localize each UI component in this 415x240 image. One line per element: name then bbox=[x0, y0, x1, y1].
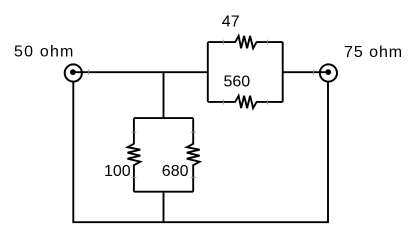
port P1 center dot bbox=[70, 69, 76, 75]
tick R4 pin2 bbox=[191, 176, 196, 178]
svg-text:50 ohm: 50 ohm bbox=[14, 44, 75, 61]
wire main right (upper box to port P2) bbox=[283, 71, 329, 73]
wire main left (port P1 to upper box) bbox=[73, 71, 208, 73]
svg-text:680: 680 bbox=[162, 163, 189, 180]
svg-text:47: 47 bbox=[222, 14, 240, 31]
port P2 center dot bbox=[325, 69, 331, 75]
wire lower box top edge bbox=[134, 117, 193, 119]
tick R1 pin2 bbox=[266, 40, 268, 45]
wire upper box right edge bbox=[282, 42, 284, 102]
wire upper box left edge bbox=[207, 42, 209, 102]
tick R2 pin2 bbox=[266, 100, 268, 105]
svg-text:75 ohm: 75 ohm bbox=[344, 44, 403, 61]
tick R3 pin1 bbox=[131, 131, 136, 133]
port P1 circle bbox=[65, 64, 82, 81]
pin end tick marks bbox=[88, 40, 313, 178]
svg-text:100: 100 bbox=[104, 163, 131, 180]
tick R1 pin1 bbox=[222, 40, 224, 45]
svg-text:560: 560 bbox=[224, 74, 251, 91]
tick R3 pin2 bbox=[131, 176, 136, 178]
resistor R1 47 (top edge of upper box) bbox=[208, 36, 283, 48]
resistor R3 100 (left edge of lower box) bbox=[128, 118, 141, 192]
wire junction tap down to lower box bbox=[163, 72, 165, 118]
tick R4 pin1 bbox=[191, 131, 196, 133]
tick R2 pin1 bbox=[222, 100, 224, 105]
wire lower box bottom tap bbox=[163, 192, 165, 223]
tick P2 pin bbox=[312, 70, 314, 75]
wire bottom loop (left drop, bottom wire, right drop) bbox=[73, 82, 328, 222]
resistor R2 560 (bottom edge of upper box) bbox=[208, 96, 283, 108]
tick P1 pin bbox=[87, 70, 89, 75]
port P2 circle bbox=[320, 64, 337, 81]
resistor R4 680 (right edge of lower box) bbox=[187, 118, 200, 192]
wire lower box bottom edge bbox=[134, 191, 193, 193]
